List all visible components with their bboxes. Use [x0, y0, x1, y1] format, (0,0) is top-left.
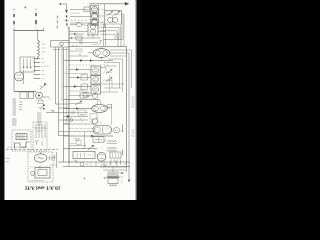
wire row y131.5 [69, 131, 95, 133]
nested corner 2 [110, 52, 129, 54]
wire x37.5 drop [37, 31, 39, 41]
wire row y16.5 faint [70, 12, 80, 14]
wire row y112 [69, 112, 88, 114]
bus x66.8 [66, 48, 68, 125]
Y marks in U1b [35, 140, 38, 145]
wire row y86.5 [64, 86, 92, 88]
wire row y31.5 [69, 31, 88, 33]
transistor Q9 box [91, 85, 101, 94]
wire row y65 [69, 64, 96, 66]
coil stripe 2 [108, 147, 117, 148]
dashed row y49.5 [53, 49, 68, 51]
wire row y34 [69, 33, 84, 35]
marks bottom U2 [30, 180, 44, 182]
wire row y99 [64, 99, 101, 101]
box B in U2 [35, 168, 50, 179]
capacitor C2 [35, 8, 37, 31]
rail y162 [58, 161, 130, 163]
label block x12 y119 [12, 118, 17, 120]
tiny dot left [84, 178, 85, 179]
wires right of U2 [56, 152, 58, 168]
dual tube oval V5 [92, 105, 108, 113]
label column x37 y113 [37, 112, 42, 114]
IYI marks [110, 160, 112, 166]
rail symbols [80, 162, 84, 166]
wire row y22.5 [70, 22, 92, 24]
bus x63.5 (left wall) [63, 48, 65, 163]
dual transistor box [88, 24, 98, 35]
wire left vertical x14 [13, 31, 15, 92]
capacitor C1 [13, 8, 15, 31]
output transformer T2 [108, 172, 118, 176]
relay rounded box K1 [93, 126, 112, 135]
transistor Q12 mark [38, 101, 43, 104]
dashed row y167 [30, 166, 52, 168]
rail x124 upper [123, 14, 125, 47]
wire row y69.5 [69, 69, 91, 71]
wire row y91 [69, 90, 88, 92]
connector stub rows [34, 58, 41, 60]
hook arrow down [59, 3, 61, 5]
nested corner 1 [110, 49, 132, 51]
transistor Q4 [91, 19, 99, 25]
shield box row [20, 92, 27, 99]
transistor circle left [77, 22, 82, 27]
boxes row y137-142 [93, 137, 104, 142]
comb in U1b [35, 124, 37, 138]
dashed box U1a [12, 130, 31, 151]
switch box drop rails [103, 24, 105, 47]
wire row y60.5 [64, 60, 114, 62]
dot end right bus [128, 180, 130, 182]
wire row y73.5 [64, 73, 89, 75]
arrow marks y164 left [100, 164, 106, 166]
box right y152 [110, 152, 121, 158]
nested corner 5 [104, 62, 120, 64]
diag arrow y147 [88, 146, 93, 150]
wire row y42.5 [64, 42, 70, 44]
rail x118 upper [117, 33, 119, 47]
long box bottom [73, 152, 95, 159]
wire y167-170 right [100, 166, 127, 168]
wire row y51 [69, 50, 83, 52]
wire row y16 [70, 15, 92, 17]
top arrow wire [90, 3, 126, 5]
dual tube oval V4 [93, 49, 110, 58]
marks left y138-145 [74, 138, 80, 140]
wire row y24.5-27 [70, 24, 77, 26]
dashed element x57.5 [56, 16, 58, 19]
tube V6 circle [97, 152, 106, 161]
left scan border bar [0, 0, 4, 200]
label column left [13, 98, 17, 100]
wire row y56 [69, 55, 88, 57]
wire row y128.5 [69, 128, 95, 130]
svg-text:10 A/I and A/II: 10 A/I and A/II [25, 184, 61, 190]
dashed box U2 [28, 152, 53, 182]
inductor L1 [38, 40, 40, 60]
box under V5 [90, 114, 97, 120]
wire row y116.5 [64, 116, 89, 118]
wire row y136 [64, 135, 114, 137]
IF can T1 [20, 57, 35, 72]
bus x62 [61, 47, 63, 101]
wire y91.5 [14, 91, 36, 93]
transistor Q7 box [91, 66, 101, 75]
wire row y148 [64, 148, 98, 150]
box left of Q2 [84, 7, 90, 12]
bus x69 (main wall) [68, 27, 70, 163]
wire row y38 [69, 37, 101, 39]
caption 10 A/I and A/II (upside down) [25, 184, 61, 190]
tick right of K1 [122, 125, 124, 130]
tick x122.5 y150 [122, 150, 124, 156]
rail x121 upper [120, 27, 122, 47]
wire row y9.5 [70, 9, 89, 11]
detector box top [51, 40, 70, 42]
wire row y77.5 [69, 77, 91, 79]
plus mark [24, 7, 26, 9]
nested right horiz mid [100, 83, 124, 85]
wire right y67.5 [101, 67, 107, 69]
tube V1 [15, 72, 24, 81]
wire row y20.5 faint [64, 20, 89, 22]
gang capacitor circles [108, 17, 113, 22]
verticals above V5 [97, 100, 99, 104]
transistor Q3 [91, 13, 99, 19]
right scan border bar [137, 0, 141, 200]
circle above rounded box [92, 119, 98, 125]
T2 side marks [104, 177, 107, 179]
rail y166.5 [63, 166, 130, 168]
small oval right of K1 [113, 128, 120, 133]
tuning coil icons mid [106, 72, 112, 73]
transistor Q8 box [91, 76, 101, 85]
wire row y120 [64, 119, 89, 121]
bus x58.5 [58, 47, 60, 136]
transistor Q10 [92, 93, 97, 98]
coil stripe 1 [108, 141, 117, 142]
tiny marks above dash line [7, 146, 12, 148]
transistor Q2 [91, 6, 99, 13]
wires right of oval [104, 65, 117, 67]
nested corner 3 [110, 55, 127, 57]
wire row y103 diag [69, 103, 82, 105]
nested corner 4 [108, 58, 123, 60]
heavy dashed line y149.5 [6, 149, 58, 151]
center horizontals [56, 103, 70, 105]
transistor Q1 mark [40, 84, 46, 90]
SW1 nested corners [101, 23, 122, 25]
wire row y95.5 [69, 95, 92, 97]
switch unit frame SW1 [104, 11, 106, 28]
dashed box U1b [33, 122, 47, 151]
wire row y145 [69, 145, 86, 147]
marks right of V2 [49, 156, 51, 161]
bus x55.5 [55, 47, 57, 104]
tuning coils in SW1 [107, 14, 113, 15]
wire top bus y30.5 [14, 30, 44, 32]
bent wire in U1a [15, 142, 30, 149]
hatched block in U1a [16, 134, 27, 140]
wire row y46.5 [69, 46, 127, 48]
wire row y124 [64, 123, 96, 125]
left edge tiny marks [6, 158, 11, 160]
tube V2 oval [34, 154, 46, 162]
label text right edge [132, 96, 135, 98]
